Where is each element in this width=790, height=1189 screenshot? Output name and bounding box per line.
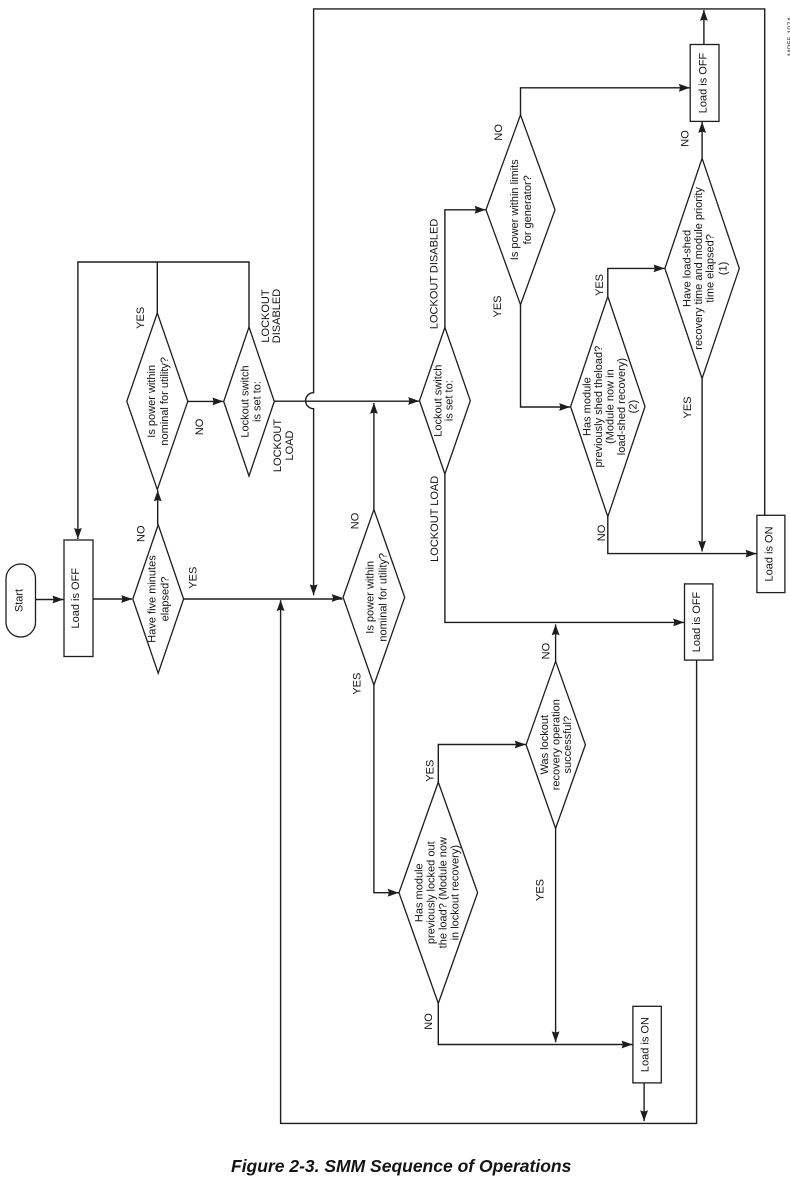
svg-text:nominal for utility?: nominal for utility? <box>378 553 390 642</box>
svg-text:DISABLED: DISABLED <box>271 289 283 343</box>
node Have five minutes elapsed <box>133 525 184 673</box>
svg-text:Load is OFF: Load is OFF <box>697 52 709 113</box>
svg-text:Is power within: Is power within <box>365 561 377 634</box>
svg-text:Load is ON: Load is ON <box>763 526 775 581</box>
svg-text:NO: NO <box>493 124 505 141</box>
node Lockout switch is set to 2 <box>420 327 471 474</box>
node Load is ON 2 <box>633 1006 661 1083</box>
svg-text:YES: YES <box>492 295 504 317</box>
node Load is ON 1 <box>757 515 785 592</box>
svg-text:YES: YES <box>135 307 147 329</box>
svg-text:LOCKOUT DISABLED: LOCKOUT DISABLED <box>429 219 441 329</box>
svg-text:YES: YES <box>352 673 364 695</box>
wire <box>555 624 557 661</box>
svg-text:for generator?: for generator? <box>522 175 534 244</box>
wire <box>306 9 765 595</box>
wire <box>184 598 343 600</box>
svg-text:YES: YES <box>594 274 606 296</box>
wire <box>521 305 571 407</box>
svg-text:Lockout switch: Lockout switch <box>240 365 252 437</box>
node Lockout switch is set to 1 <box>224 327 275 476</box>
svg-text:in lockout recovery): in lockout recovery) <box>449 845 461 940</box>
wire <box>274 400 419 402</box>
wire <box>445 474 684 622</box>
wire <box>35 599 63 601</box>
svg-text:NO: NO <box>596 524 608 541</box>
svg-text:Has module: Has module <box>413 863 425 922</box>
svg-text:NO: NO <box>135 525 147 542</box>
svg-text:Was lockout: Was lockout <box>539 715 551 775</box>
svg-text:successful?: successful? <box>562 716 574 773</box>
svg-text:recovery operation: recovery operation <box>551 699 563 790</box>
node Was lockout recovery operation successful <box>526 661 585 828</box>
node Has module previously locked out the load <box>399 782 478 1003</box>
wire <box>373 403 375 510</box>
svg-text:Have five minutes: Have five minutes <box>147 555 159 643</box>
node Has module previously shed the load <box>571 296 645 516</box>
wire <box>608 268 665 296</box>
wire <box>703 10 705 45</box>
svg-text:Load is OFF: Load is OFF <box>70 568 82 629</box>
svg-text:LOCKOUT LOAD: LOCKOUT LOAD <box>429 476 441 562</box>
svg-text:the load? (Module now: the load? (Module now <box>437 837 449 948</box>
svg-text:NO: NO <box>540 642 552 659</box>
svg-text:NO: NO <box>423 1013 435 1030</box>
wire <box>555 828 557 1042</box>
svg-text:Load is ON: Load is ON <box>639 1017 651 1072</box>
svg-text:(2): (2) <box>627 400 639 413</box>
svg-text:Start: Start <box>14 589 26 612</box>
svg-text:MP55-197A: MP55-197A <box>786 16 790 56</box>
svg-text:(Module now in: (Module now in <box>604 369 616 444</box>
node Load is OFF 3 <box>685 584 713 660</box>
node Load is OFF 2 <box>690 45 719 122</box>
svg-text:YES: YES <box>188 567 200 589</box>
node Is power within nominal for utility 1 <box>127 313 188 490</box>
svg-text:is set to:: is set to: <box>252 381 264 422</box>
svg-text:YES: YES <box>682 396 694 418</box>
node Start <box>6 564 36 637</box>
svg-text:time elapsed?: time elapsed? <box>705 234 717 303</box>
wire <box>438 1003 632 1044</box>
svg-text:Have load-shed: Have load-shed <box>682 230 694 307</box>
wire <box>93 598 132 600</box>
svg-text:Has module: Has module <box>581 377 593 436</box>
svg-text:YES: YES <box>425 760 437 782</box>
svg-text:NO: NO <box>679 130 691 147</box>
node Load is OFF 1 <box>64 540 93 657</box>
node Is power within limits for generator <box>486 115 555 305</box>
svg-text:is set to:: is set to: <box>444 380 456 421</box>
wire <box>374 685 399 893</box>
wire <box>445 210 486 328</box>
svg-text:(1): (1) <box>718 262 730 275</box>
svg-text:LOCKOUT: LOCKOUT <box>272 419 284 472</box>
svg-text:Load is OFF: Load is OFF <box>691 591 703 652</box>
wire <box>643 1083 645 1121</box>
wire <box>188 400 223 402</box>
node Is power within nominal for utility 2 <box>343 510 405 686</box>
svg-text:previously locked out: previously locked out <box>425 841 437 944</box>
svg-text:previously shed theload?: previously shed theload? <box>593 346 605 468</box>
wire <box>157 490 159 525</box>
svg-text:recovery time and module prior: recovery time and module priority <box>693 187 705 350</box>
wire <box>78 262 249 539</box>
svg-text:elapsed?: elapsed? <box>160 577 172 622</box>
wire <box>281 600 697 1123</box>
svg-text:LOAD: LOAD <box>284 430 296 460</box>
wire <box>521 88 690 115</box>
wire <box>438 745 525 783</box>
svg-text:YES: YES <box>534 879 546 901</box>
svg-text:load-shed recovery): load-shed recovery) <box>616 358 628 455</box>
svg-text:Is power within: Is power within <box>146 365 158 438</box>
svg-text:Is power within limits: Is power within limits <box>509 159 521 260</box>
svg-text:nominal for utility?: nominal for utility? <box>159 357 171 446</box>
wire <box>701 379 703 552</box>
svg-text:Figure 2-3. SMM Sequence of Op: Figure 2-3. SMM Sequence of Operations <box>231 1156 572 1176</box>
svg-text:NO: NO <box>350 512 362 529</box>
svg-text:NO: NO <box>194 418 206 435</box>
wire <box>608 517 757 554</box>
wire <box>701 122 703 158</box>
node Have load-shed recovery time elapsed <box>665 158 739 378</box>
